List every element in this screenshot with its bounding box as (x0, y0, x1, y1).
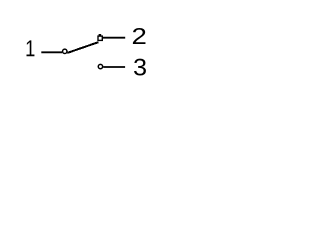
SPDT switch schematic (0, 0, 171, 106)
wire pin1 (41, 51, 62, 53)
wire pin3 (103, 66, 125, 68)
throw contact circle (pin 3) (98, 64, 102, 68)
pin label 1 (27, 40, 35, 56)
switch lever wire (67, 42, 98, 53)
throw contact square (pin 2) (98, 36, 102, 40)
pin label 2 (133, 28, 146, 44)
common contact circle (pin 1) (63, 49, 67, 53)
slider knob nub (99, 34, 102, 36)
pin label 3 (134, 59, 146, 76)
wire pin2 (103, 37, 125, 39)
